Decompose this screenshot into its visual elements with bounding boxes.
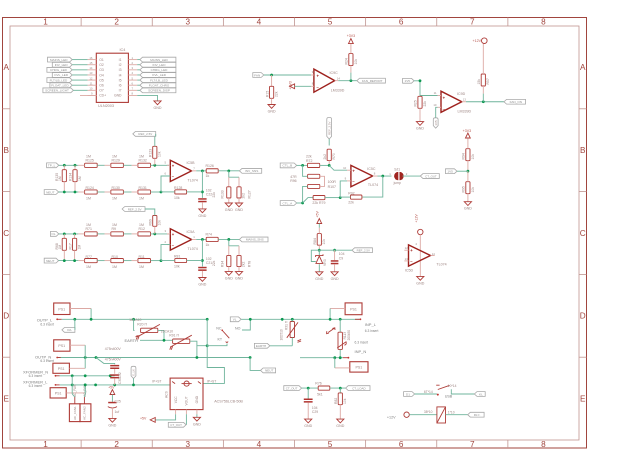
svg-text:I5: I5 — [119, 78, 122, 82]
svg-text:FLOAT_LED: FLOAT_LED — [51, 83, 69, 87]
output flag FAN_REPORT — [357, 78, 386, 83]
svg-text:+3V3: +3V3 — [463, 129, 472, 133]
svg-text:GND: GND — [154, 106, 162, 110]
svg-text:R76: R76 — [315, 382, 321, 386]
svg-text:EARTH: EARTH — [256, 344, 266, 348]
resistor R57 15k — [477, 44, 490, 102]
svg-text:2: 2 — [164, 240, 166, 244]
supply +3V3 marker — [463, 129, 472, 138]
svg-text:TL074: TL074 — [368, 183, 378, 187]
resistor R134 1M — [69, 165, 82, 192]
output flag CHRG_LED — [137, 67, 176, 72]
resistor R82 10k — [334, 388, 347, 419]
svg-text:KT: KT — [218, 337, 223, 341]
svg-text:SJ1: SJ1 — [394, 167, 400, 171]
svg-text:MAINS_LED: MAINS_LED — [150, 58, 168, 62]
output flag INV_SNS — [239, 168, 261, 173]
svg-text:1M: 1M — [112, 196, 117, 200]
svg-text:1*10: 1*10 — [448, 411, 455, 415]
svg-text:1: 1 — [43, 18, 48, 27]
wire IC9C output — [338, 79, 357, 82]
svg-text:R25: R25 — [414, 100, 418, 106]
relay contact K7 — [207, 319, 250, 345]
svg-text:FAN_ON: FAN_ON — [510, 100, 522, 104]
wire XFORMER_N line — [60, 374, 115, 377]
svg-text:TL074: TL074 — [436, 263, 446, 267]
wire REF node — [319, 249, 352, 251]
svg-text:R24: R24 — [345, 58, 349, 64]
resistor R70 2k2 — [323, 149, 336, 165]
ground GND (IC5D) — [416, 276, 424, 285]
resistor R96 47R — [290, 165, 320, 183]
resistor R131 1M — [132, 186, 161, 200]
svg-text:GND: GND — [268, 110, 276, 114]
svg-text:R72: R72 — [306, 159, 312, 163]
svg-text:C21: C21 — [206, 261, 212, 265]
svg-text:R11: R11 — [139, 255, 145, 259]
wire output to R81 — [201, 239, 204, 266]
switch USB — [424, 384, 475, 398]
resistor R12 1M — [132, 223, 171, 236]
resistor R81 10k feedback — [161, 255, 202, 269]
resistor R72 22k — [306, 155, 329, 168]
capacitor C22 102 — [198, 189, 212, 209]
node MAINS_SNS junction — [227, 238, 230, 241]
svg-text:R134: R134 — [69, 173, 73, 181]
wire IC4 GND pin — [137, 95, 157, 100]
ground GND (R25) — [416, 122, 424, 131]
flag REF_2.5V (VR3) — [352, 248, 372, 253]
resistor R95 10k — [462, 171, 475, 202]
svg-text:1k: 1k — [206, 243, 210, 247]
svg-text:1: 1 — [193, 235, 195, 239]
svg-text:GND: GND — [331, 277, 339, 281]
svg-text:D: D — [580, 312, 586, 321]
svg-text:2k2: 2k2 — [242, 262, 246, 268]
ground GND (C22) — [198, 209, 206, 218]
svg-text:1: 1 — [389, 172, 391, 176]
svg-text:GND: GND — [198, 214, 206, 218]
node NEUT junctions — [63, 191, 77, 194]
svg-text:R124: R124 — [86, 186, 94, 190]
capacitor C32 475n400V — [105, 358, 122, 385]
input flag 1V5 (IC9D) — [403, 78, 438, 95]
svg-text:−: − — [410, 259, 413, 264]
svg-text:INV_LED: INV_LED — [55, 63, 69, 67]
svg-text:−: − — [352, 179, 355, 184]
svg-text:KL: KL — [479, 392, 483, 396]
resistor R78 2k2 — [237, 255, 252, 271]
svg-text:A: A — [3, 63, 9, 72]
resistor R94 10k — [462, 139, 475, 172]
svg-text:OVL_LED: OVL_LED — [152, 73, 167, 77]
svg-text:7: 7 — [193, 166, 195, 170]
svg-text:TL074: TL074 — [188, 247, 198, 251]
resistor R79 22k — [303, 196, 341, 206]
ground GND (R133) — [225, 203, 233, 212]
ground GND (R15) — [268, 105, 276, 114]
svg-text:R70: R70 — [332, 153, 336, 159]
svg-text:22k: 22k — [212, 260, 216, 266]
svg-text:R131: R131 — [139, 186, 147, 190]
svg-text:4: 4 — [257, 18, 262, 27]
input flag OVL_LED — [52, 73, 87, 78]
svg-text:+5V: +5V — [108, 385, 115, 389]
terminal OUTP_L — [37, 318, 62, 327]
terminal EARTH — [125, 336, 167, 343]
svg-text:2: 2 — [114, 18, 119, 27]
svg-text:ACS756LCB-50B: ACS756LCB-50B — [214, 400, 243, 404]
wire VL to INP_L — [241, 318, 359, 321]
svg-text:10: 10 — [89, 87, 93, 91]
svg-text:11: 11 — [90, 81, 93, 85]
svg-text:1k: 1k — [206, 174, 210, 178]
resistor R15 22k — [265, 75, 278, 105]
resistor R69 10k — [149, 212, 162, 234]
svg-text:13: 13 — [463, 97, 467, 101]
resistor R124 1M — [78, 186, 104, 200]
node NEUT row C junctions — [63, 259, 76, 262]
svg-text:AC_FAN1: AC_FAN1 — [73, 406, 77, 420]
ground GND (C9) — [331, 272, 339, 281]
ground GND (C25) — [108, 418, 116, 427]
node IC5A - junction — [160, 259, 163, 262]
connector PS1 (XFORMER_N) — [53, 358, 85, 374]
svg-text:−: − — [172, 174, 175, 179]
svg-text:CT_LOAD: CT_LOAD — [352, 386, 365, 390]
svg-text:R126: R126 — [206, 164, 214, 168]
wire NEUT drop — [250, 358, 260, 371]
input flag FLT/LB_LED — [47, 78, 88, 83]
svg-text:R9: R9 — [112, 227, 117, 231]
resistor R71 1M — [78, 223, 104, 236]
svg-text:CTL_B: CTL_B — [283, 164, 293, 168]
relay coil K1 — [409, 407, 467, 423]
svg-text:INV_LED: INV_LED — [153, 63, 167, 67]
flag O/L — [62, 319, 75, 332]
svg-text:104: 104 — [339, 252, 345, 256]
svg-text:CD+: CD+ — [99, 94, 106, 98]
svg-text:CHRG_LED: CHRG_LED — [151, 68, 169, 72]
svg-text:USB: USB — [445, 394, 453, 398]
svg-text:GND: GND — [225, 277, 233, 281]
input flag D1 — [404, 392, 437, 397]
svg-text:4: 4 — [415, 242, 417, 246]
svg-text:16D510: 16D510 — [280, 329, 284, 340]
svg-text:R84: R84 — [313, 238, 317, 244]
resistor R129 1M — [105, 154, 132, 167]
svg-text:C: C — [580, 229, 586, 238]
connector AC_FAN2 — [80, 384, 91, 422]
capacitor C30 475n400V — [96, 347, 121, 374]
svg-text:1V5: 1V5 — [404, 79, 410, 83]
resistor R11 1M — [132, 255, 161, 269]
svg-text:R96: R96 — [290, 179, 296, 183]
output flag CT_LOAD — [346, 386, 370, 391]
output flag INV_LED — [137, 62, 176, 67]
svg-text:PS1: PS1 — [58, 344, 65, 348]
op-amp IC9C LM339D — [311, 69, 345, 92]
svg-text:R123: R123 — [149, 149, 153, 157]
svg-text:O2: O2 — [99, 63, 104, 67]
svg-text:GND: GND — [235, 208, 243, 212]
svg-text:GND: GND — [416, 127, 424, 131]
svg-text:O/L: O/L — [67, 328, 72, 332]
svg-text:B: B — [3, 146, 9, 155]
svg-text:6T*14: 6T*14 — [424, 390, 433, 394]
svg-text:NO: NO — [235, 326, 241, 330]
svg-text:I1: I1 — [119, 58, 122, 62]
resistor R92 22k — [340, 191, 362, 204]
resistor R130 1M — [105, 186, 132, 200]
svg-text:8: 8 — [541, 440, 546, 449]
output flag FAN_ON — [504, 99, 526, 104]
svg-text:6.3 insert: 6.3 insert — [29, 374, 43, 378]
wire R91 node to OUTP_N — [196, 346, 198, 358]
input flag NEUT (row C) — [44, 258, 78, 263]
svg-text:CT_OUT: CT_OUT — [170, 423, 182, 427]
input flag MAINS_LED — [48, 57, 88, 62]
svg-text:LM339D: LM339D — [458, 110, 472, 114]
svg-text:R31 Π: R31 Π — [285, 320, 289, 330]
svg-text:R81: R81 — [174, 255, 180, 259]
svg-text:I7: I7 — [119, 89, 122, 93]
ground GND (VR3) — [315, 272, 323, 281]
svg-text:2k2: 2k2 — [242, 193, 246, 199]
output flag KL — [474, 392, 485, 397]
svg-text:GND: GND — [108, 423, 116, 427]
wire to IC5C + — [329, 165, 347, 170]
svg-text:SCREEN_DISP: SCREEN_DISP — [148, 89, 170, 93]
svg-text:I4: I4 — [119, 73, 122, 77]
svg-text:10: 10 — [343, 166, 347, 170]
svg-text:22k: 22k — [212, 192, 216, 198]
output flag MAINS_SNS — [239, 237, 268, 242]
svg-text:C30C32: C30C32 — [118, 372, 122, 384]
svg-text:1V5: 1V5 — [447, 169, 453, 173]
svg-text:R130: R130 — [112, 186, 120, 190]
svg-text:1V5: 1V5 — [434, 120, 438, 126]
svg-text:R92: R92 — [348, 191, 354, 195]
svg-text:+: + — [443, 95, 446, 100]
varistor R91 16CA10 — [161, 329, 207, 349]
flag NEUT (bottom) — [261, 368, 276, 373]
svg-text:IC9C: IC9C — [330, 71, 339, 75]
input flag CT_OUT (filter) — [284, 386, 319, 391]
svg-text:7: 7 — [470, 440, 475, 449]
pin 9 CD+ stub — [80, 94, 96, 96]
capacitor C29 104 — [304, 388, 318, 419]
current sensor U1 ACS756LCB-50B — [152, 378, 243, 414]
resistor R126 1k — [206, 164, 240, 178]
svg-text:E_LK: E_LK — [132, 369, 136, 376]
svg-text:C9: C9 — [339, 256, 343, 260]
ground GND (IC4) — [154, 101, 162, 110]
svg-text:R71: R71 — [86, 227, 92, 231]
svg-text:IP+ST: IP+ST — [207, 379, 216, 383]
wire IC5A output node — [196, 238, 206, 241]
ground GND (R78) — [235, 272, 243, 281]
node R72/R70 junction — [328, 164, 331, 167]
resistor R74 1k — [206, 233, 240, 247]
node IC5B - junction — [160, 191, 163, 194]
svg-text:D: D — [3, 312, 9, 321]
svg-text:EARTH: EARTH — [125, 338, 139, 343]
ground GND (ACS) — [193, 414, 201, 426]
node R69 junction — [153, 233, 156, 236]
svg-text:R57: R57 — [486, 78, 490, 84]
svg-text:R133: R133 — [220, 190, 224, 198]
svg-text:15k: 15k — [477, 79, 481, 85]
svg-text:22k R79: 22k R79 — [312, 201, 325, 205]
svg-text:12: 12 — [405, 246, 409, 250]
svg-text:FAN_REPORT: FAN_REPORT — [362, 79, 383, 83]
svg-text:38*10: 38*10 — [424, 410, 433, 414]
svg-text:R91 Π: R91 Π — [169, 333, 179, 337]
svg-text:6.3 insert: 6.3 insert — [365, 329, 379, 333]
svg-text:FAN: FAN — [254, 73, 260, 77]
svg-text:5: 5 — [328, 440, 333, 449]
resistor R10 1M — [105, 255, 132, 269]
svg-text:6.3 insert: 6.3 insert — [355, 340, 369, 344]
wire XFORMER_L line — [60, 384, 170, 387]
svg-text:GND: GND — [225, 208, 233, 212]
svg-text:1uf: 1uf — [115, 410, 120, 414]
connector AC_FAN1 — [69, 376, 80, 422]
svg-text:I6: I6 — [119, 84, 122, 88]
wire IC5B output node — [196, 169, 206, 172]
flag REF_2.5V (R123) — [133, 132, 156, 137]
svg-text:+12V: +12V — [415, 214, 419, 223]
svg-text:−: − — [172, 243, 175, 248]
svg-text:104: 104 — [312, 406, 318, 410]
svg-text:R69: R69 — [149, 219, 153, 225]
svg-text:R94: R94 — [462, 153, 466, 159]
supply +12V (R57) — [473, 38, 488, 44]
svg-text:+: + — [317, 73, 320, 78]
svg-text:I2: I2 — [119, 63, 122, 67]
svg-text:VR3: VR3 — [323, 259, 327, 266]
svg-text:LM339D: LM339D — [331, 89, 345, 93]
svg-text:PS1: PS1 — [350, 308, 357, 312]
ground GND (R82) — [336, 419, 344, 428]
svg-text:3: 3 — [186, 440, 191, 449]
node 1V5 junction — [419, 79, 422, 82]
output flag FLT/LB_LED — [137, 78, 176, 83]
svg-text:GND: GND — [416, 281, 424, 285]
flag REF_2.5V vertical — [327, 118, 332, 146]
ground GND (R95) — [464, 202, 472, 211]
svg-text:R132: R132 — [139, 159, 147, 163]
svg-text:+3V3: +3V3 — [289, 81, 293, 89]
svg-text:GND: GND — [193, 422, 201, 426]
svg-text:O4: O4 — [99, 73, 104, 77]
svg-text:REF_2.5V: REF_2.5V — [128, 207, 142, 211]
output flag SCREEN_DISP — [137, 88, 176, 93]
supply +12V (IC5D) — [415, 214, 423, 235]
svg-text:MAINS_SNS: MAINS_SNS — [246, 238, 264, 242]
svg-text:C29: C29 — [312, 410, 318, 414]
supply +5V (ACS) — [140, 414, 176, 422]
svg-text:PS1: PS1 — [356, 366, 363, 370]
svg-text:2k2: 2k2 — [323, 154, 327, 160]
svg-text:MAINS_LED: MAINS_LED — [50, 58, 68, 62]
output flag FLOAT_CHRG — [137, 83, 176, 88]
svg-text:+12V: +12V — [387, 416, 396, 420]
svg-text:GND: GND — [304, 424, 312, 428]
ground GND (C21) — [198, 278, 206, 287]
node TP_L junctions — [63, 164, 77, 167]
svg-text:3: 3 — [186, 18, 191, 27]
input flag OL — [50, 232, 78, 237]
svg-text:A: A — [580, 63, 586, 72]
connector PS1 (INP_N) — [335, 358, 368, 372]
node OL junctions — [63, 233, 76, 236]
shunt reference VR3 TL431 — [311, 250, 327, 272]
input flag NEUT (row B) — [44, 190, 78, 195]
op-amp IC5C TL074 — [343, 165, 378, 187]
svg-text:11: 11 — [434, 91, 437, 95]
resistor R77 1M — [78, 255, 104, 269]
op-amp IC5D TL074 spare — [404, 235, 446, 277]
svg-text:AC_FAN: AC_FAN — [73, 384, 77, 397]
input flag FLOAT_LED — [50, 83, 88, 88]
wire output to R128 — [201, 171, 204, 198]
svg-text:1M: 1M — [112, 265, 117, 269]
svg-text:10: 10 — [433, 103, 437, 107]
svg-text:R12: R12 — [139, 227, 145, 231]
svg-text:+: + — [172, 232, 175, 237]
svg-text:IC5B: IC5B — [187, 161, 196, 165]
svg-text:3: 3 — [164, 229, 166, 233]
svg-text:16: 16 — [89, 56, 93, 60]
resistor R17 1M — [68, 234, 81, 261]
svg-text:9: 9 — [345, 177, 347, 181]
op-amp IC9D LM339D — [433, 91, 471, 113]
wire to R133/R127 — [229, 171, 239, 187]
ground GND (R127) — [235, 203, 243, 212]
resistor R84 10k — [313, 228, 326, 250]
svg-text:10k: 10k — [158, 220, 162, 226]
svg-text:22k: 22k — [423, 101, 427, 107]
svg-text:R20 Π: R20 Π — [137, 323, 147, 327]
flag vertical (earth link) — [131, 366, 136, 386]
svg-text:10k: 10k — [174, 265, 180, 269]
svg-text:1M: 1M — [78, 245, 82, 250]
svg-text:TP_L: TP_L — [48, 164, 56, 168]
wire OUTP_L drop — [203, 319, 224, 383]
supply +5V marker — [316, 211, 322, 228]
svg-text:2: 2 — [406, 172, 408, 176]
wire OUTP_N line — [57, 356, 252, 359]
svg-text:+12V: +12V — [473, 39, 482, 43]
svg-text:R128: R128 — [174, 186, 182, 190]
svg-text:REF_2.5V: REF_2.5V — [357, 248, 370, 252]
svg-text:AC_FAN2: AC_FAN2 — [82, 406, 86, 420]
svg-text:1M: 1M — [139, 196, 144, 200]
wire IC5B - feedback — [161, 176, 170, 192]
svg-text:R107: R107 — [328, 185, 336, 189]
svg-text:+5V: +5V — [316, 211, 320, 218]
svg-text:D1: D1 — [406, 392, 410, 396]
supply +12V (relay) — [387, 412, 409, 420]
svg-text:NEUT: NEUT — [265, 369, 274, 373]
svg-text:R17: R17 — [68, 243, 72, 249]
svg-text:R10: R10 — [112, 255, 118, 259]
svg-text:R95: R95 — [462, 186, 466, 192]
flag EARTH — [254, 343, 292, 348]
svg-text:R82: R82 — [334, 398, 338, 404]
